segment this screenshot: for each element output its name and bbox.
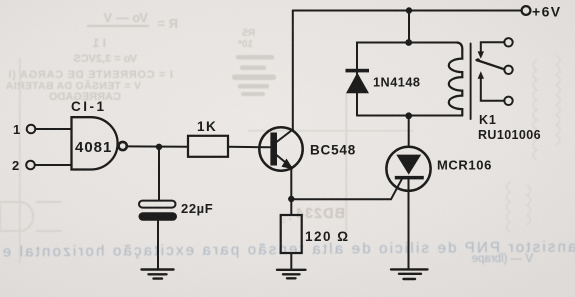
resistor R2 120ohm body bbox=[281, 215, 302, 253]
+6V terminal bbox=[522, 6, 531, 15]
wire capacitor to ground bbox=[157, 221, 159, 269]
top +V rail bbox=[293, 10, 522, 12]
svg-text:CI-1: CI-1 bbox=[71, 99, 107, 114]
svg-text:4081: 4081 bbox=[75, 139, 112, 156]
svg-text:1K: 1K bbox=[197, 119, 217, 134]
svg-text:* =: * = bbox=[281, 216, 292, 226]
svg-text:10*: 10* bbox=[238, 39, 253, 50]
relay contact middle terminal bbox=[504, 66, 512, 74]
wire top contact with down arrow bbox=[481, 42, 505, 52]
wire resistor to transistor base bbox=[228, 146, 271, 149]
svg-text:22µF: 22µF bbox=[181, 201, 213, 216]
resistor R1 1K body bbox=[188, 136, 228, 157]
svg-text:V — (lbrape: V — (lbrape bbox=[472, 253, 533, 265]
capacitor C1 22uF bottom plate bbox=[139, 212, 178, 221]
ground G1 bbox=[142, 270, 174, 279]
bleed formula R=(Vo-V)/I1 (mirrored) bbox=[5, 10, 255, 103]
bleed coil scallops right edge bbox=[507, 55, 561, 232]
SCR Q2 MCR106 body bbox=[386, 147, 430, 191]
wire input2 to gate bbox=[35, 164, 72, 166]
bleed vertical rule left bbox=[19, 58, 21, 263]
wire emitter down to node B bbox=[290, 167, 292, 199]
relay top wire bbox=[357, 43, 457, 116]
wire collector up to +V rail bbox=[292, 11, 294, 130]
svg-text:I 1: I 1 bbox=[92, 36, 106, 50]
transistor Q1 BC548 body bbox=[259, 127, 302, 170]
diode D1 triangle bbox=[346, 73, 369, 94]
relay contact top terminal bbox=[504, 38, 512, 46]
wire node B to resistor R2 bbox=[290, 199, 292, 215]
wire relay to SCR anode bbox=[408, 116, 410, 147]
svg-text:RU101006: RU101006 bbox=[478, 128, 541, 142]
svg-text:Vo = 3,2VCS: Vo = 3,2VCS bbox=[73, 53, 137, 65]
wire node B to SCR gate bbox=[291, 178, 402, 200]
relay coil K1 bbox=[449, 43, 463, 116]
svg-text:2: 2 bbox=[12, 158, 19, 173]
svg-text:MCR106: MCR106 bbox=[437, 158, 492, 173]
svg-text:R5: R5 bbox=[242, 28, 255, 39]
wire R2 to ground bbox=[290, 253, 292, 270]
relay armature bbox=[477, 60, 505, 69]
wire rail down to relay top bbox=[408, 11, 410, 43]
transistor collector diagonal bbox=[277, 130, 293, 143]
wire SCR cathode to ground bbox=[408, 179, 410, 269]
relay contact bottom terminal bbox=[504, 97, 512, 105]
svg-text:+6V: +6V bbox=[532, 4, 562, 20]
transistor base bar bbox=[270, 133, 277, 166]
node A junction dot bbox=[156, 144, 162, 150]
svg-text:Vo — V: Vo — V bbox=[103, 10, 148, 25]
bleed resistor stripes block bbox=[232, 55, 276, 96]
bleed gate shape bottom-left bbox=[0, 202, 62, 231]
svg-text:BC548: BC548 bbox=[310, 143, 356, 158]
svg-text:120 Ω: 120 Ω bbox=[305, 229, 350, 244]
svg-text:1N4148: 1N4148 bbox=[373, 76, 420, 90]
node D junction dot bbox=[405, 39, 412, 46]
gate U1 4081 body bbox=[72, 117, 118, 169]
svg-text:1: 1 bbox=[13, 122, 20, 137]
SCR cathode bar bbox=[395, 176, 424, 180]
diode D1 1N4148 cathode bar bbox=[346, 69, 370, 73]
transistor emitter diagonal with arrow bbox=[277, 155, 289, 165]
wire input1 to gate bbox=[36, 128, 72, 130]
gate output bubble bbox=[119, 142, 127, 150]
relay bottom wire bbox=[357, 115, 462, 117]
node B junction dot bbox=[288, 196, 294, 202]
svg-text:K1: K1 bbox=[479, 113, 497, 127]
input terminal 1 bbox=[27, 125, 36, 134]
node E junction dot bbox=[405, 112, 412, 119]
bleed horizontal rule bbox=[248, 130, 413, 132]
input terminal 2 bbox=[26, 161, 35, 170]
SCR triangle bbox=[396, 155, 421, 175]
ground G2 bbox=[277, 270, 306, 279]
node C junction dot on rail bbox=[406, 7, 412, 13]
wire gate output to node A bbox=[127, 145, 188, 147]
wire bottom contact with up arrow bbox=[481, 78, 505, 101]
bleed vertical rule centre bbox=[346, 93, 348, 233]
ground G3 bbox=[391, 269, 428, 279]
svg-text:R =: R = bbox=[157, 16, 178, 31]
wire node A down to capacitor bbox=[158, 147, 160, 200]
relay frame line bbox=[470, 44, 472, 120]
capacitor C1 22uF top plate bbox=[139, 201, 176, 208]
